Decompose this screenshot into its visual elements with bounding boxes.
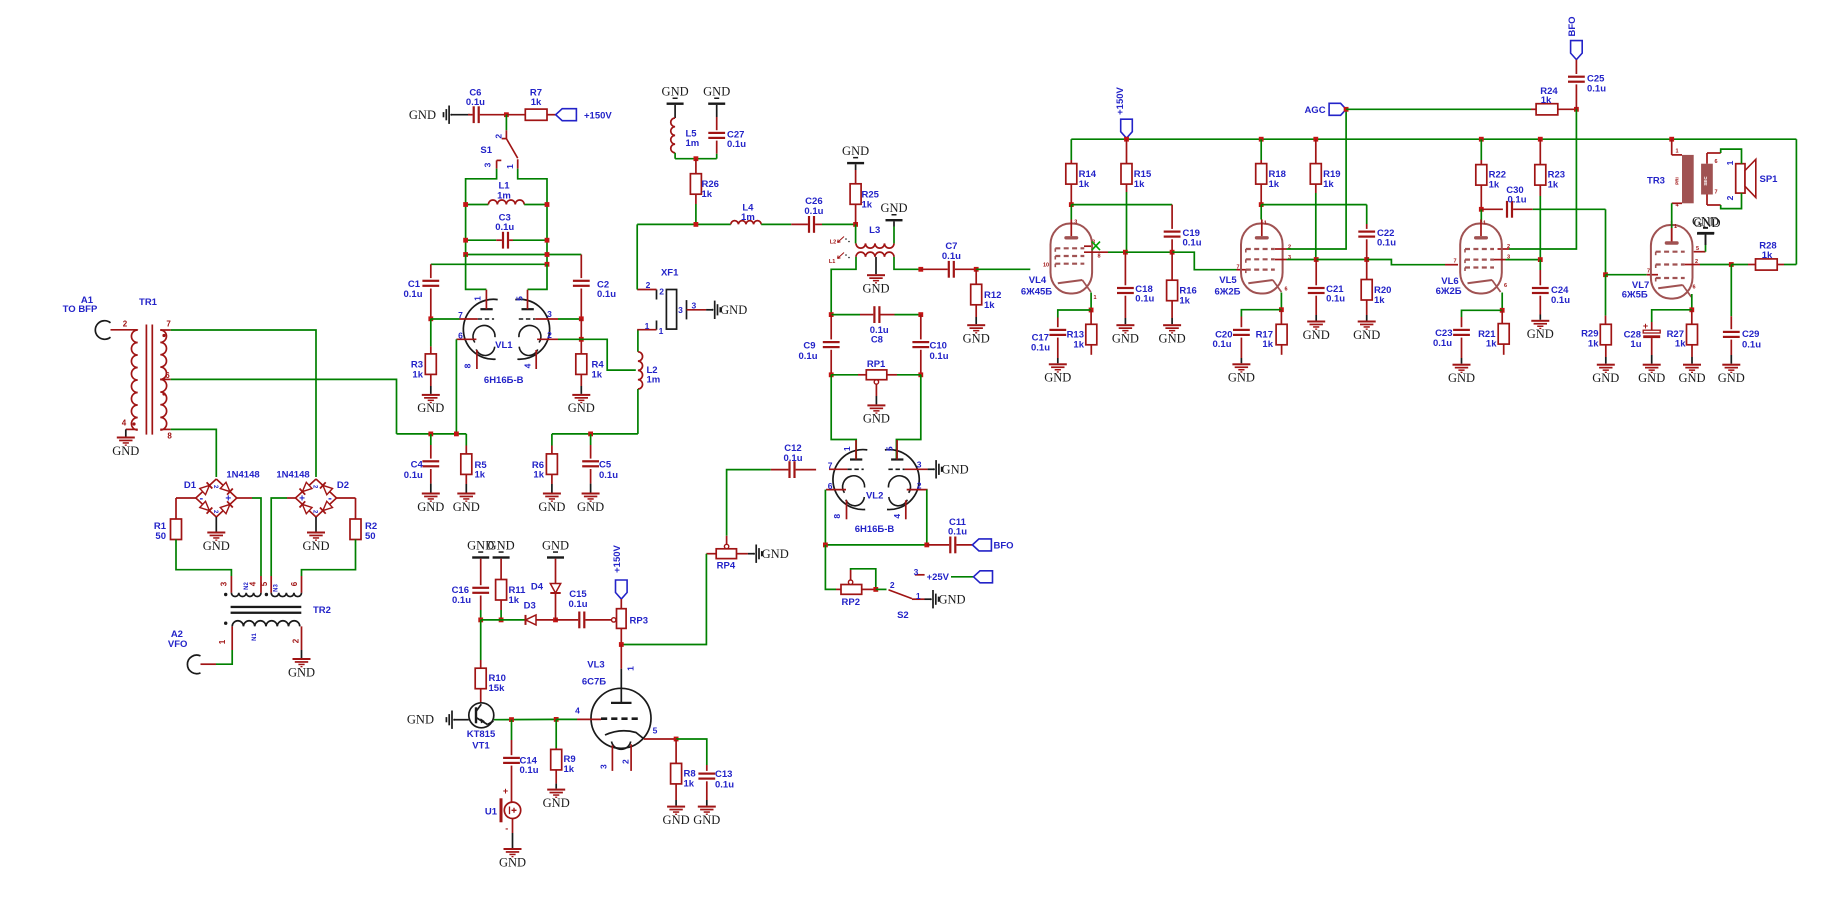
svg-text:8: 8 xyxy=(463,363,473,368)
svg-text:8: 8 xyxy=(1097,254,1100,260)
svg-text:6Ж45Б: 6Ж45Б xyxy=(1021,287,1052,298)
svg-text:0.1u: 0.1u xyxy=(599,470,618,481)
ground C20 xyxy=(1228,358,1255,385)
capacitor C8 0.1u xyxy=(831,306,921,345)
svg-text:GND: GND xyxy=(499,855,526,869)
svg-text:C8: C8 xyxy=(871,334,883,345)
capacitor C16 0.1u xyxy=(452,559,490,620)
resistor R4 1k xyxy=(576,354,605,380)
svg-text:15k: 15k xyxy=(489,683,506,694)
svg-text:0.1u: 0.1u xyxy=(452,595,471,606)
ground C17 xyxy=(1044,358,1071,385)
junction C8 left xyxy=(829,312,834,317)
ground RP1 xyxy=(863,404,890,425)
svg-text:GND: GND xyxy=(302,539,329,553)
terminal AGC xyxy=(1304,103,1346,116)
svg-text:3: 3 xyxy=(678,305,683,315)
junction C7-R12 xyxy=(974,267,979,272)
svg-text:7: 7 xyxy=(828,460,833,470)
svg-text:GND: GND xyxy=(488,538,515,552)
svg-text:GND: GND xyxy=(1527,327,1554,341)
svg-text:1: 1 xyxy=(1264,221,1267,227)
svg-text:2: 2 xyxy=(646,280,651,290)
svg-text:C29: C29 xyxy=(1742,329,1759,340)
svg-text:GND: GND xyxy=(417,500,444,514)
junction pin2-C11 xyxy=(924,543,929,548)
svg-text:S2: S2 xyxy=(897,610,909,621)
capacitor C13 0.1u xyxy=(698,765,734,800)
svg-text:0.1u: 0.1u xyxy=(568,599,587,610)
junction C26-R25-L3 xyxy=(853,222,858,227)
junction bus R18 xyxy=(1259,137,1264,142)
ground VT1 base xyxy=(407,711,455,729)
resistor R27 1k xyxy=(1667,310,1698,350)
svg-text:GND: GND xyxy=(577,500,604,514)
switch S1 xyxy=(480,130,517,169)
junction R23-C24 xyxy=(1538,257,1543,262)
capacitor C20 0.1u xyxy=(1212,317,1249,359)
inductor L2 1m xyxy=(638,330,660,434)
junction R26 top xyxy=(694,156,699,161)
svg-text:0.1u: 0.1u xyxy=(1507,195,1526,206)
junction RP1 left xyxy=(829,372,834,377)
capacitor C9 0.1u xyxy=(798,315,839,375)
wire VL7 pin2 row xyxy=(1685,264,1732,266)
svg-text:3: 3 xyxy=(1074,220,1077,226)
resistor R1 50 xyxy=(154,498,182,542)
svg-text:GND: GND xyxy=(703,85,730,99)
svg-text:GND: GND xyxy=(417,401,444,415)
svg-text:2: 2 xyxy=(917,480,922,490)
svg-text:GND: GND xyxy=(453,500,480,514)
svg-text:1k: 1k xyxy=(1262,339,1273,350)
wire row3 (C1 top) xyxy=(431,263,547,265)
wire R1 to TR2 pin 3 xyxy=(176,540,231,577)
wire D2- to R2 xyxy=(337,497,356,499)
svg-text:0.1u: 0.1u xyxy=(804,206,823,217)
svg-text:50: 50 xyxy=(365,531,376,542)
wire bus to R28 xyxy=(1795,139,1797,264)
wire to VL7 pin7 xyxy=(1606,274,1659,276)
svg-text:XF1: XF1 xyxy=(661,267,679,278)
svg-text:0.1u: 0.1u xyxy=(520,765,539,776)
svg-text:7: 7 xyxy=(1647,269,1650,275)
junction pin6 row xyxy=(454,432,459,437)
svg-text:1m: 1m xyxy=(741,212,755,223)
svg-text:4: 4 xyxy=(122,419,127,428)
ground R8 xyxy=(663,784,690,827)
svg-text:VT1: VT1 xyxy=(472,741,490,752)
svg-text:C5: C5 xyxy=(599,460,612,471)
svg-text:1: 1 xyxy=(626,666,636,671)
svg-text:1k: 1k xyxy=(1323,179,1334,190)
svg-text:GND: GND xyxy=(1228,371,1255,385)
svg-text:6: 6 xyxy=(828,481,833,491)
junction L3-C7-C10 xyxy=(918,267,923,272)
svg-text:0.1u: 0.1u xyxy=(948,526,967,537)
wire VL4 pin8 row xyxy=(1084,251,1125,253)
svg-text:1k: 1k xyxy=(592,369,603,380)
svg-text:GND: GND xyxy=(568,401,595,415)
svg-text:5: 5 xyxy=(260,581,269,586)
svg-text:GND: GND xyxy=(409,108,436,122)
ground C16 xyxy=(467,538,494,558)
wire screen to VL5 pin1 xyxy=(1260,205,1262,220)
svg-text:GND: GND xyxy=(862,282,889,296)
junction row2 left xyxy=(463,252,468,257)
svg-text:0.1u: 0.1u xyxy=(1183,238,1202,249)
svg-text:2: 2 xyxy=(1725,195,1735,200)
junction C6-R7 xyxy=(504,112,509,117)
svg-text:2: 2 xyxy=(493,134,503,139)
svg-text:L2: L2 xyxy=(830,239,836,245)
svg-text:1k: 1k xyxy=(1374,295,1385,306)
ground L3 primary tap xyxy=(862,257,889,296)
crystal filter XF1 xyxy=(645,267,697,336)
ground R11 xyxy=(488,538,515,558)
svg-text:D3: D3 xyxy=(524,601,536,612)
junction R9-VL3 grid xyxy=(554,717,559,722)
ground D4 xyxy=(542,538,569,558)
wire cathode to C20 xyxy=(1241,310,1281,317)
wire S2 pin3 to terminal xyxy=(951,576,974,578)
svg-text:0.1u: 0.1u xyxy=(495,222,514,233)
svg-text:2: 2 xyxy=(659,287,664,297)
svg-text:GND: GND xyxy=(1678,371,1705,385)
terminal BFO (C11) xyxy=(972,539,1013,552)
junction VL6 cathode xyxy=(1500,308,1505,313)
svg-text:TR1: TR1 xyxy=(139,297,158,308)
junction bus +150V xyxy=(1124,137,1129,142)
wire TR1 pin7 to D2 xyxy=(171,330,316,477)
junction C22-R20 xyxy=(1364,257,1369,262)
svg-text:BFO: BFO xyxy=(994,540,1014,551)
svg-text:0.1u: 0.1u xyxy=(727,139,746,150)
svg-text:1k: 1k xyxy=(533,470,544,481)
capacitor C27 0.1u xyxy=(708,105,746,159)
wire XF1 pin2 lead xyxy=(637,289,656,291)
wire anode row (C2 top) xyxy=(466,254,582,256)
svg-text:S1: S1 xyxy=(480,145,492,156)
ground R9 xyxy=(543,770,570,810)
junction R8 xyxy=(674,737,679,742)
svg-text:0.1u: 0.1u xyxy=(1377,238,1396,249)
svg-text:1u: 1u xyxy=(1630,339,1641,350)
wire screen row VL5 xyxy=(1261,204,1367,206)
junction C21 xyxy=(1314,257,1319,262)
wire cathode to C28 xyxy=(1652,310,1692,322)
ground R25 xyxy=(842,144,869,164)
wire TR1 pin8 to D1 xyxy=(171,429,217,477)
diode D4 xyxy=(531,559,561,620)
svg-text:GND: GND xyxy=(938,593,965,607)
ground TR1 pin 4 xyxy=(112,437,139,458)
wire TR3 sec pin6 to SP1 xyxy=(1707,149,1742,164)
svg-text:TR2: TR2 xyxy=(313,605,331,616)
wire TR3 sec pin7 to SP1 xyxy=(1707,193,1742,209)
resistor R25 1k xyxy=(850,164,880,224)
wire VL2 pin2 down xyxy=(926,490,928,545)
svg-text:1k: 1k xyxy=(1548,179,1559,190)
svg-text:1k: 1k xyxy=(1134,179,1145,190)
svg-text:7: 7 xyxy=(458,310,463,320)
svg-text:VL2: VL2 xyxy=(866,490,883,501)
svg-text:VL1: VL1 xyxy=(495,340,513,351)
junction C16-R10 xyxy=(478,618,483,623)
capacitor C11 0.1u xyxy=(927,517,973,554)
svg-text:1k: 1k xyxy=(531,97,542,108)
resistor R17 1k xyxy=(1256,310,1288,355)
svg-text:0.1u: 0.1u xyxy=(930,351,949,362)
ground D2 xyxy=(302,517,329,553)
resistor R22 1k xyxy=(1476,139,1506,209)
tube VL7 6Zh5B xyxy=(1622,221,1699,301)
wire cathode row right xyxy=(552,433,638,435)
svg-text:2: 2 xyxy=(620,759,630,764)
svg-text:2: 2 xyxy=(1507,244,1510,250)
capacitor C15 0.1u xyxy=(556,589,612,628)
ground R27 xyxy=(1678,345,1705,385)
junction L1 left xyxy=(463,202,468,207)
TR1 pin 8 lead xyxy=(160,428,170,430)
ground R6 xyxy=(538,474,565,513)
wire D1+ to TR2 pin 4 xyxy=(237,498,261,576)
svg-text:1N4148: 1N4148 xyxy=(276,470,309,481)
wire pin8 row to C19 xyxy=(1125,251,1172,253)
capacitor C28 1u (polarized) xyxy=(1624,321,1661,355)
wire gnd to C6 xyxy=(451,114,470,116)
svg-text:-: - xyxy=(505,824,508,834)
junction pin6-RP2 xyxy=(823,543,828,548)
svg-text:1k: 1k xyxy=(1073,339,1084,350)
svg-text:6Ж2Б: 6Ж2Б xyxy=(1215,287,1241,298)
svg-text:6С7Б: 6С7Б xyxy=(582,676,606,687)
svg-text:3: 3 xyxy=(599,764,609,769)
svg-text:GND: GND xyxy=(942,463,969,477)
svg-text:1: 1 xyxy=(842,446,852,451)
svg-text:4: 4 xyxy=(575,705,580,715)
svg-text:GND: GND xyxy=(663,813,690,827)
ground VL2 pin3 xyxy=(933,460,969,478)
svg-text:2: 2 xyxy=(890,580,895,590)
svg-text:-: - xyxy=(328,493,332,505)
resistor R13 1k xyxy=(1067,310,1097,355)
svg-text:2: 2 xyxy=(292,638,301,643)
svg-text:0.1u: 0.1u xyxy=(403,289,422,300)
wire L5-C27 row xyxy=(675,158,717,160)
ground R29 xyxy=(1592,345,1619,385)
resistor R29 1k xyxy=(1581,275,1611,350)
TR1 pin 6 lead xyxy=(160,378,170,380)
ground R20 xyxy=(1353,300,1380,342)
resistor R11 1k xyxy=(496,559,527,620)
svg-text:1m: 1m xyxy=(686,138,700,149)
wire VL2 pin6 down xyxy=(824,490,826,545)
svg-text:1k: 1k xyxy=(702,189,713,200)
capacitor C1 0.1u xyxy=(403,264,439,319)
svg-text:6: 6 xyxy=(1714,159,1717,165)
svg-text:GND: GND xyxy=(762,547,789,561)
svg-text:0.1u: 0.1u xyxy=(1551,295,1570,306)
wire S1 pin2 xyxy=(505,115,507,131)
diode bridge D1 xyxy=(184,479,237,517)
wire cathode to C23 xyxy=(1462,310,1503,317)
potentiometer RP2 xyxy=(836,570,876,608)
junction C18 xyxy=(1123,250,1128,255)
resistor R12 1k xyxy=(971,269,1002,311)
svg-text:3: 3 xyxy=(220,581,229,586)
ground XF1 pin3 xyxy=(712,301,748,319)
junction C3 left xyxy=(463,238,468,243)
resistor R10 15k xyxy=(475,620,506,694)
svg-text:1m: 1m xyxy=(497,190,511,201)
ground U1 xyxy=(499,833,526,869)
svg-text:GND: GND xyxy=(1592,371,1619,385)
wire XF1 pin1 lead xyxy=(637,329,656,331)
wire VL5 to VL6 pin7 xyxy=(1367,260,1458,265)
capacitor C29 0.1u xyxy=(1723,265,1761,356)
ground C28 xyxy=(1638,355,1665,385)
capacitor C4 0.1u xyxy=(404,434,439,484)
svg-text:TO BFP: TO BFP xyxy=(63,304,98,315)
ground L3 secondary top xyxy=(880,201,907,243)
ground TR3 xyxy=(1693,216,1720,245)
svg-text:2: 2 xyxy=(123,320,128,329)
label 1N4148 (D1) xyxy=(226,470,259,481)
svg-text:D1: D1 xyxy=(184,480,197,491)
svg-text:1k: 1k xyxy=(509,595,520,606)
svg-text:GND: GND xyxy=(203,539,230,553)
wire VL6 cathode xyxy=(1501,293,1503,311)
wire VL7 pin5 to gnd xyxy=(1694,245,1706,252)
svg-text:+: + xyxy=(225,494,231,505)
tube VL2 6N16B-V xyxy=(826,440,928,535)
resistor R21 1k xyxy=(1478,310,1509,355)
svg-text:VL3: VL3 xyxy=(587,659,604,670)
wire VL3 grid xyxy=(556,718,601,720)
svg-text:6: 6 xyxy=(1692,285,1695,291)
svg-text:0.1u: 0.1u xyxy=(1742,339,1761,350)
svg-text:+150V: +150V xyxy=(584,110,612,121)
svg-text:6Н16Б-В: 6Н16Б-В xyxy=(484,375,524,386)
resistor R20 1k xyxy=(1361,260,1391,306)
svg-text:10: 10 xyxy=(1043,263,1049,269)
svg-text:0.1u: 0.1u xyxy=(715,780,734,791)
svg-text:N1: N1 xyxy=(252,633,258,641)
svg-text:C9: C9 xyxy=(803,340,815,351)
svg-text:N3: N3 xyxy=(274,584,280,592)
junction VL5 cathode xyxy=(1279,307,1284,312)
wire RP3 to VL3 pin1 xyxy=(620,645,622,703)
svg-text:1k: 1k xyxy=(1486,339,1497,350)
wire BFO row xyxy=(825,544,926,546)
svg-text:1k: 1k xyxy=(1588,338,1599,349)
junction pin3-C2 xyxy=(579,316,584,321)
ground C13 xyxy=(693,800,720,827)
ground R4 xyxy=(568,374,595,415)
svg-text:7: 7 xyxy=(1236,265,1239,271)
svg-text:KT815: KT815 xyxy=(467,729,496,740)
capacitor C30 0.1u xyxy=(1481,185,1605,218)
resistor R24 1k xyxy=(1531,86,1576,115)
svg-text:6Н16Б-В: 6Н16Б-В xyxy=(855,524,895,535)
wire VL1 pin2 to L2 xyxy=(558,339,636,370)
ground C5 xyxy=(577,484,604,514)
junction row2 right xyxy=(545,252,550,257)
svg-text:3: 3 xyxy=(547,309,552,319)
svg-text:L3: L3 xyxy=(869,225,880,236)
svg-text:1: 1 xyxy=(472,296,482,301)
resistor R16 1k xyxy=(1167,252,1197,306)
svg-text:AGC: AGC xyxy=(1304,105,1325,116)
svg-text:0.1u: 0.1u xyxy=(942,251,961,262)
resistor R9 1k xyxy=(551,719,576,774)
capacitor C22 0.1u xyxy=(1358,205,1396,260)
svg-text:5: 5 xyxy=(884,446,894,451)
wire D2+ to TR2 pin 5 xyxy=(271,498,296,576)
capacitor C14 0.1u xyxy=(503,720,539,790)
wire VL4 cathode xyxy=(1090,293,1092,311)
junction C8 right xyxy=(918,312,923,317)
wire VL4 to VL5 pin7 xyxy=(1172,252,1249,270)
svg-text:PRI: PRI xyxy=(1675,177,1680,185)
TR1 pin 7 lead xyxy=(160,329,170,331)
junction C5 xyxy=(588,432,593,437)
transformer TR1 xyxy=(122,297,173,441)
junction C4 xyxy=(428,432,433,437)
wire VL6 pin1 xyxy=(1480,209,1482,222)
wire D1- to R1 xyxy=(176,497,196,499)
svg-text:GND: GND xyxy=(1044,371,1071,385)
wire pin6 to RP2 xyxy=(825,545,836,590)
svg-text:1k: 1k xyxy=(1762,250,1773,261)
capacitor C18 0.1u xyxy=(1117,252,1155,318)
wire RP4 to RP3 xyxy=(621,554,706,645)
capacitor C26 0.1u xyxy=(791,196,855,233)
svg-text:1: 1 xyxy=(505,164,515,169)
svg-text:1k: 1k xyxy=(1541,95,1552,106)
svg-text:D2: D2 xyxy=(337,480,349,491)
svg-text:1: 1 xyxy=(218,639,227,644)
potentiometer RP3 xyxy=(612,599,648,645)
tube VL6 6Zh2B xyxy=(1436,220,1510,298)
resistor R7 1k xyxy=(506,87,555,120)
svg-text:1k: 1k xyxy=(1269,179,1280,190)
svg-text:6: 6 xyxy=(290,581,299,586)
svg-text:RP1: RP1 xyxy=(867,359,886,370)
svg-text:3: 3 xyxy=(482,162,492,167)
svg-text:GND: GND xyxy=(542,538,569,552)
svg-text:GND: GND xyxy=(538,500,565,514)
junction VL7 cathode xyxy=(1689,307,1694,312)
capacitor C25 0.1u xyxy=(1568,60,1606,110)
junction bus TR3 xyxy=(1669,137,1674,142)
ground S2 pin1 xyxy=(925,590,966,608)
resistor R23 1k xyxy=(1535,139,1565,259)
svg-text:N2: N2 xyxy=(244,582,250,590)
junction R11 row xyxy=(499,618,504,623)
potentiometer RP4 xyxy=(706,536,748,572)
svg-text:3: 3 xyxy=(917,459,922,469)
wire VL5 pin2 to AGC xyxy=(1275,109,1346,249)
connector A2 VFO xyxy=(168,629,201,674)
svg-text:+25V: +25V xyxy=(927,572,950,583)
ground TR2 pin 2 xyxy=(288,650,315,679)
label +25V xyxy=(927,572,950,583)
svg-text:L1: L1 xyxy=(829,259,835,265)
wire VL1 pin3 to C2 xyxy=(558,318,581,320)
svg-text:0.1u: 0.1u xyxy=(1031,343,1050,354)
